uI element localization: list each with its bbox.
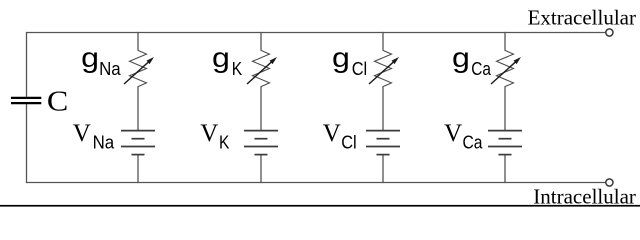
svg-text:Cl: Cl	[352, 59, 368, 79]
svg-text:V: V	[444, 120, 462, 147]
svg-text:g: g	[212, 42, 230, 73]
svg-text:Extracellular: Extracellular	[528, 5, 636, 29]
svg-text:g: g	[81, 42, 99, 73]
battery V_Ca	[488, 131, 522, 155]
svg-text:Ca: Ca	[463, 133, 484, 153]
wire bottom rail	[27, 182, 606, 184]
svg-text:g: g	[332, 42, 350, 73]
svg-text:V: V	[73, 120, 91, 147]
svg-text:Na: Na	[93, 133, 116, 153]
svg-text:K: K	[219, 133, 229, 153]
wire left vertical (capacitor branch)	[26, 32, 28, 97]
svg-text:Na: Na	[99, 59, 122, 79]
battery V_Na	[121, 131, 155, 155]
node Intracellular terminal	[606, 179, 613, 186]
wire branch 1 vertical	[137, 32, 139, 51]
node Extracellular terminal	[606, 29, 613, 36]
resistor g_Na (variable)	[124, 50, 154, 86]
resistor g_Cl (variable)	[369, 50, 399, 86]
resistor g_K (variable)	[247, 50, 277, 86]
svg-text:Cl: Cl	[341, 133, 357, 153]
svg-text:V: V	[200, 120, 218, 147]
svg-text:C: C	[47, 86, 68, 118]
svg-text:Intracellular: Intracellular	[533, 184, 636, 207]
svg-text:K: K	[232, 59, 242, 79]
wire branch 2 vertical	[260, 32, 262, 51]
resistor g_Ca (variable)	[491, 50, 521, 86]
battery V_Cl	[366, 131, 400, 155]
battery V_K	[244, 131, 278, 155]
svg-text:g: g	[452, 42, 470, 73]
capacitor C	[11, 98, 41, 103]
wire top rail	[27, 32, 606, 34]
svg-text:V: V	[323, 120, 341, 147]
svg-text:Ca: Ca	[471, 59, 492, 79]
wire branch 3 vertical	[382, 32, 384, 51]
bottom page rule	[0, 205, 640, 207]
wire branch 4 vertical	[504, 32, 506, 51]
